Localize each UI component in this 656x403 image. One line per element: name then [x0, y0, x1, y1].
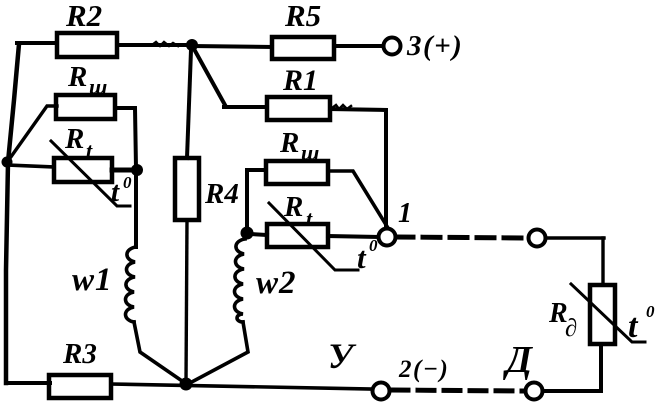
svg-text:Д: Д [503, 339, 534, 381]
inductor W1 [125, 247, 136, 322]
terminal 3(+) [384, 38, 401, 55]
node Rt1 junction [131, 164, 143, 176]
wire terminal to corner [546, 236, 604, 239]
node top junction [186, 39, 198, 51]
resistor Rsh2 [266, 161, 328, 184]
svg-text:R: R [279, 127, 299, 159]
thermistor arrow Rt1 [51, 141, 130, 206]
thermistor arrow Rt2 [269, 203, 358, 270]
node W2 junction [241, 227, 254, 240]
svg-text:0: 0 [123, 173, 132, 192]
wire diagonal rail to Rsh1 [8, 106, 57, 161]
svg-text:У: У [328, 336, 357, 376]
resistor Rt1 [54, 158, 112, 182]
wire R2 to top junction [117, 43, 188, 47]
wire left rail [6, 44, 19, 383]
resistor Rsh1 [56, 95, 115, 119]
wire Rd top lead [601, 238, 604, 285]
wire junction down to R4 [187, 50, 191, 158]
wire R1 right lead and down to node 1 [330, 109, 386, 229]
svg-text:3(+): 3(+) [406, 30, 463, 62]
resistor R5 [272, 37, 334, 59]
wire Rt1 right lead [112, 168, 134, 173]
svg-text:ш: ш [301, 140, 319, 165]
terminal mid circle [529, 230, 546, 247]
wire Rsh1 right lead down [115, 108, 136, 168]
wire R4 bottom lead [186, 220, 187, 383]
wire W1 bottom to junction [134, 322, 185, 383]
wire dashed bottom [392, 390, 523, 391]
wire R1 left lead [224, 105, 267, 109]
terminal D circle [526, 383, 543, 400]
resistor R1 [267, 97, 330, 120]
wire W2 bottom to junction [188, 322, 248, 384]
svg-text:R: R [64, 123, 84, 155]
wire scribble on R2 lead [152, 42, 178, 46]
thermistor arrow Rd [571, 284, 645, 342]
svg-text:1: 1 [398, 198, 412, 229]
wire Rt1 left lead [8, 165, 54, 167]
svg-text:t: t [111, 176, 120, 208]
wire dashed node1 to mid circle [396, 237, 528, 238]
svg-text:2(−): 2(−) [398, 356, 449, 383]
svg-text:∂: ∂ [565, 315, 577, 342]
svg-text:w2: w2 [256, 265, 297, 301]
wire scribble on R1 lead [332, 105, 351, 109]
resistor Rt2 [267, 224, 328, 247]
svg-text:R2: R2 [65, 0, 102, 33]
wire bottom middle [111, 384, 371, 389]
wire junction to R5 [192, 46, 272, 47]
node 1 terminal [379, 229, 396, 246]
wire Rsh2 left lead [247, 170, 266, 228]
svg-text:w1: w1 [72, 262, 113, 298]
wire Rt2 left lead [250, 234, 267, 235]
svg-text:t: t [357, 240, 367, 275]
node bottom junction [180, 378, 193, 391]
svg-text:R1: R1 [282, 64, 318, 97]
svg-text:0: 0 [646, 302, 655, 321]
wire Rsh2 right lead diagonal to node 1 [328, 171, 388, 228]
svg-text:R4: R4 [204, 178, 239, 210]
node left rail junction [2, 157, 13, 168]
resistor R4 [175, 158, 199, 220]
wire junction diagonal to R1 [194, 49, 225, 105]
wire vertical to W1 [134, 172, 138, 247]
wire bottom right corner [543, 345, 601, 391]
inductor W2 [234, 239, 245, 322]
wire bottom left [6, 381, 50, 385]
wire R5 to terminal [334, 44, 383, 48]
svg-text:R: R [67, 61, 87, 93]
svg-text:t: t [628, 308, 639, 345]
svg-text:R3: R3 [62, 338, 97, 370]
svg-text:R5: R5 [284, 0, 321, 33]
svg-text:t: t [86, 138, 93, 163]
svg-text:t: t [306, 206, 313, 231]
resistor R2 [57, 33, 117, 57]
resistor Rd [590, 285, 615, 344]
svg-text:ш: ш [89, 74, 107, 99]
terminal 2(-) [373, 383, 390, 400]
wire Rt2 right lead [328, 236, 378, 237]
resistor R3 [49, 375, 111, 398]
wire top-left horizontal [17, 41, 57, 45]
